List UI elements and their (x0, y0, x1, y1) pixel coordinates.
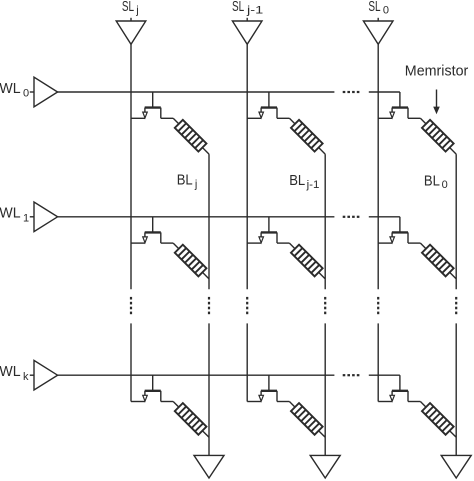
svg-text:j: j (135, 5, 138, 17)
wire drain diagonal to M13 (420, 118, 426, 124)
continuation dots WLk (343, 374, 360, 376)
driver buffer SLj-1 (232, 21, 262, 44)
wire source of Q12 to SLj-1 (247, 117, 261, 119)
wire gate of Q13 to WL0 (399, 92, 401, 108)
wire source of Q21 to SLj (131, 242, 145, 244)
output triangle BL0 (441, 455, 471, 478)
wire gate of Q12 to WL0 (268, 92, 270, 108)
svg-text:0: 0 (383, 5, 389, 17)
wire drain diagonal to M31 (173, 402, 179, 408)
wire drain diagonal to M33 (420, 402, 426, 408)
wire drain of Q32 (277, 401, 289, 403)
memristor M31 (row WLk, col SLj) (175, 403, 207, 435)
wire WLk horizontal (left of dots) (58, 374, 335, 376)
wire gate of Q32 to WLk (268, 375, 270, 391)
wire drain of Q12 (277, 117, 289, 119)
wire drain diagonal to M21 (173, 243, 179, 249)
output triangle BLj-1 (310, 455, 340, 478)
svg-text:SL: SL (232, 0, 244, 15)
wire SLj input stub (130, 18, 132, 21)
wire M21 to BLj (202, 272, 209, 279)
svg-text:Memristor: Memristor (405, 64, 469, 80)
wire WLk horizontal (right of dots) (369, 374, 400, 376)
continuation dots BL0 (455, 297, 457, 314)
memristor M32 (row WLk, col SLj-1) (291, 403, 323, 435)
wire SLj-1 vertical (lower) (246, 323, 248, 401)
wire M33 to BL0 (450, 431, 457, 438)
continuation dots WL0 (343, 91, 360, 93)
svg-text:j: j (194, 178, 197, 190)
wire source of Q23 to SL0 (378, 242, 392, 244)
svg-text:SL: SL (368, 0, 380, 15)
output triangle BLj (194, 455, 224, 478)
memristor M23 (row WL1, col SL0) (422, 245, 454, 277)
wire BLj vertical (upper) (208, 154, 210, 289)
svg-text:SL: SL (122, 0, 134, 15)
transistor Q32 (row WLk, col SLj-1) (259, 391, 277, 402)
wire drain of Q23 (408, 242, 420, 244)
wire SLj vertical (upper) (130, 44, 132, 289)
memristor M21 (row WL1, col SLj) (175, 245, 207, 277)
wire BL0 vertical (upper) (455, 154, 457, 289)
wire drain diagonal to M23 (420, 243, 426, 249)
wire gate of Q31 to WLk (152, 375, 154, 391)
svg-text:BL: BL (289, 173, 305, 189)
wire SL0 input stub (377, 18, 379, 21)
continuation dots SL0 (377, 297, 379, 314)
transistor Q21 (row WL1, col SLj) (143, 232, 161, 243)
wire source of Q11 to SLj (131, 117, 145, 119)
wire gate of Q23 to WL1 (399, 217, 401, 233)
wire M13 to BL0 (450, 148, 457, 155)
svg-text:0: 0 (442, 179, 448, 191)
wire SL0 vertical (lower) (377, 323, 379, 401)
wire BL0 vertical (lower) (455, 323, 457, 455)
wire SLj-1 vertical (upper) (246, 44, 248, 289)
wire WL1 horizontal (left of dots) (58, 216, 335, 218)
wire M31 to BLj (202, 431, 209, 438)
transistor Q33 (row WLk, col SL0) (390, 391, 408, 402)
memristor M33 (row WLk, col SL0) (422, 403, 454, 435)
svg-text:1: 1 (23, 212, 29, 224)
driver buffer WL1 (34, 202, 58, 232)
transistor Q13 (row WL0, col SL0) (390, 108, 408, 119)
wire source of Q33 to SL0 (378, 401, 392, 403)
memristor M22 (row WL1, col SLj-1) (291, 245, 323, 277)
wire gate of Q21 to WL1 (152, 217, 154, 233)
wire drain of Q22 (277, 242, 289, 244)
wire BLj vertical (lower) (208, 323, 210, 455)
wire drain of Q21 (161, 242, 173, 244)
wire gate of Q22 to WL1 (268, 217, 270, 233)
wire gate of Q33 to WLk (399, 375, 401, 391)
wire SLj-1 input stub (246, 18, 248, 21)
svg-text:j-1: j-1 (246, 5, 264, 17)
svg-text:k: k (23, 371, 29, 383)
driver buffer SLj (116, 21, 146, 44)
driver buffer WLk (34, 360, 58, 390)
transistor Q11 (row WL0, col SLj) (143, 108, 161, 119)
continuation dots WL1 (343, 216, 360, 218)
continuation dots SLj-1 (246, 297, 248, 314)
wire source of Q32 to SLj-1 (247, 401, 261, 403)
memristor M12 (row WL0, col SLj-1) (291, 120, 323, 152)
wire M11 to BLj (202, 148, 209, 155)
wire gate of Q11 to WL0 (152, 92, 154, 108)
svg-text:BL: BL (177, 173, 193, 189)
wire WL0 input stub (30, 91, 34, 93)
wire SL0 vertical (upper) (377, 44, 379, 289)
svg-text:WL: WL (0, 364, 21, 380)
transistor Q22 (row WL1, col SLj-1) (259, 232, 277, 243)
wire drain of Q33 (408, 401, 420, 403)
wire M12 to BLj-1 (319, 148, 326, 155)
continuation dots BLj (208, 297, 210, 314)
transistor Q23 (row WL1, col SL0) (390, 232, 408, 243)
svg-text:WL: WL (0, 81, 21, 97)
wire drain of Q31 (161, 401, 173, 403)
wire source of Q31 to SLj (131, 401, 145, 403)
svg-text:0: 0 (23, 88, 29, 100)
wire WL1 input stub (30, 216, 34, 218)
annotation arrow to memristor M13 (433, 90, 440, 115)
driver buffer WL0 (34, 77, 58, 107)
wire SLj vertical (lower) (130, 323, 132, 401)
wire M23 to BL0 (450, 272, 457, 279)
svg-text:j-1: j-1 (306, 179, 320, 191)
driver buffer SL0 (363, 21, 393, 44)
wire WL1 horizontal (right of dots) (369, 216, 400, 218)
wire WL0 horizontal (right of dots) (369, 91, 400, 93)
wire drain of Q13 (408, 117, 420, 119)
memristor M11 (row WL0, col SLj) (175, 120, 207, 152)
transistor Q12 (row WL0, col SLj-1) (259, 108, 277, 119)
svg-text:WL: WL (0, 206, 21, 222)
wire WL0 horizontal (left of dots) (58, 91, 335, 93)
wire drain of Q11 (161, 117, 173, 119)
wire source of Q22 to SLj-1 (247, 242, 261, 244)
wire WLk input stub (30, 374, 34, 376)
wire drain diagonal to M22 (289, 243, 295, 249)
memristor M13 (row WL0, col SL0) (422, 120, 454, 152)
wire M22 to BLj-1 (319, 272, 326, 279)
wire source of Q13 to SL0 (378, 117, 392, 119)
wire M32 to BLj-1 (319, 431, 326, 438)
continuation dots SLj (130, 297, 132, 314)
transistor Q31 (row WLk, col SLj) (143, 391, 161, 402)
wire drain diagonal to M12 (289, 118, 295, 124)
wire BLj-1 vertical (upper) (324, 154, 326, 289)
svg-text:BL: BL (424, 173, 440, 189)
continuation dots BLj-1 (324, 297, 326, 314)
wire BLj-1 vertical (lower) (324, 323, 326, 455)
wire drain diagonal to M11 (173, 118, 179, 124)
wire drain diagonal to M32 (289, 402, 295, 408)
